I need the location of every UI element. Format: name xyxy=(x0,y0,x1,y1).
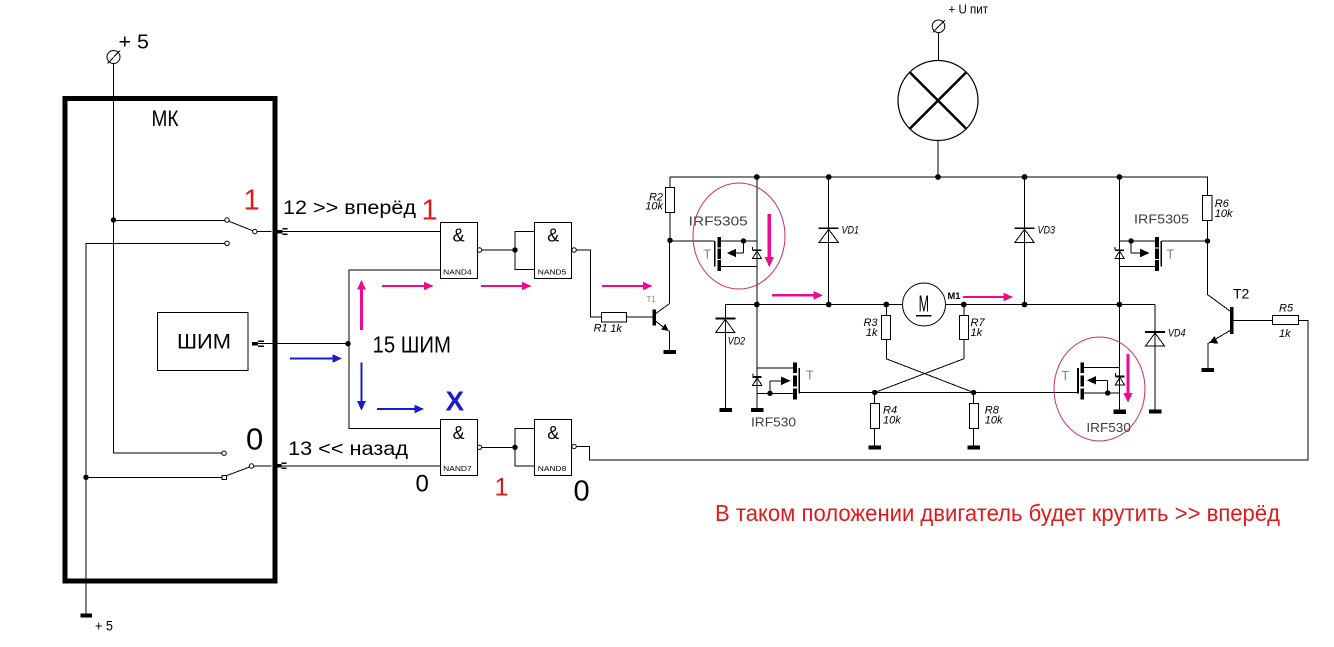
node gate left IRF5305 xyxy=(667,238,672,243)
svg-text:R5: R5 xyxy=(1279,303,1294,315)
svg-text:&: & xyxy=(453,423,465,443)
magenta arrow up from PWM node xyxy=(357,280,366,330)
svg-text:10k: 10k xyxy=(645,201,663,213)
magenta arrow right 5 at M1 xyxy=(963,293,1013,302)
wire pin12 to NAND4 input A xyxy=(282,231,440,233)
svg-text:IRF5305: IRF5305 xyxy=(1134,211,1189,226)
node rail left FET source xyxy=(754,302,760,308)
svg-text:ШИМ: ШИМ xyxy=(177,331,231,354)
body diode left IRF5305 xyxy=(752,247,761,259)
ground VD4 xyxy=(1149,410,1162,414)
resistor R6 xyxy=(1203,196,1234,221)
svg-text:13 << назад: 13 << назад xyxy=(288,438,409,460)
wire drain-source vertical right low side xyxy=(1119,305,1121,410)
node rail R3 xyxy=(883,302,889,308)
svg-text:&: & xyxy=(547,423,559,443)
wire supply to lamp xyxy=(938,33,940,61)
svg-text:NAND8: NAND8 xyxy=(538,466,567,473)
wire crossover R7 to left gate node xyxy=(875,340,964,393)
transistor T1 xyxy=(647,240,670,350)
lamp xyxy=(898,61,978,141)
svg-text:R1: R1 xyxy=(594,323,608,335)
resistor R7 xyxy=(960,305,986,340)
body diode right IRF5305 xyxy=(1115,247,1124,259)
top rail xyxy=(670,177,1208,196)
svg-text:IRF5305: IRF5305 xyxy=(689,213,748,228)
svg-text:&: & xyxy=(453,225,465,245)
pin mark at ШИМ output xyxy=(252,341,264,346)
transistor Q: IRF530 right (N-MOSFET, gate left) xyxy=(1062,362,1120,399)
resistor R4 xyxy=(871,393,902,446)
svg-text:T: T xyxy=(1062,369,1070,383)
svg-text:NAND4: NAND4 xyxy=(443,270,472,277)
node rail right FET xyxy=(1117,174,1123,180)
svg-text:0: 0 xyxy=(416,471,429,498)
wire pin13 to NAND7 input B xyxy=(281,465,440,467)
node gate right IRF5305 xyxy=(1205,238,1210,243)
node right gate xyxy=(971,390,976,395)
svg-text:T: T xyxy=(704,248,712,262)
diode VD3 xyxy=(1015,177,1056,305)
wire lamp to rail xyxy=(937,141,939,178)
transistor T2 xyxy=(1208,286,1272,368)
blue arrow right lower xyxy=(377,405,424,414)
magenta arrow right 3 xyxy=(602,282,653,291)
diode VD4 xyxy=(1145,305,1186,410)
switch 12 lower contact (open) xyxy=(225,241,229,245)
svg-text:0: 0 xyxy=(574,476,590,508)
wire lower contacts bus xyxy=(86,243,226,583)
node left gate xyxy=(872,390,877,395)
ground T1 xyxy=(664,350,677,354)
node rail right FET source xyxy=(1117,302,1123,308)
magenta arrow right 4 on rail xyxy=(772,291,823,300)
body diode left IRF530 xyxy=(753,374,762,386)
NAND4 xyxy=(441,223,482,279)
node rail/lamp xyxy=(935,174,941,180)
svg-text:IRF530: IRF530 xyxy=(751,415,796,430)
node ШИМ branch xyxy=(345,341,350,346)
+5 bar bottom-left xyxy=(81,583,114,634)
wire down to pin13 upper contact xyxy=(114,220,224,453)
node rail VD3 xyxy=(1022,174,1028,180)
resistor R3 xyxy=(863,305,890,340)
svg-text:1: 1 xyxy=(422,195,438,227)
resistor R1 xyxy=(594,313,627,336)
svg-text:10k: 10k xyxy=(985,415,1003,427)
svg-text:1k: 1k xyxy=(971,327,983,339)
MK box (microcontroller) xyxy=(65,99,275,582)
svg-text:M1: M1 xyxy=(948,291,961,301)
resistor R2 xyxy=(645,188,674,213)
transistor Q: IRF530 left (N-MOSFET, gate right) xyxy=(757,362,814,399)
wire R2 to gate node xyxy=(669,213,671,241)
wire PWM branch vertical xyxy=(349,270,440,429)
wire NAND4 out to NAND5 inputs xyxy=(482,232,535,270)
svg-text:VD4: VD4 xyxy=(1168,328,1186,340)
highlight ellipse right IRF530 xyxy=(1054,337,1145,441)
resistor R5 xyxy=(1273,303,1299,341)
wire NAND7 out to NAND8 inputs xyxy=(482,429,535,467)
wire +5 to pin12 switch node xyxy=(113,64,115,221)
wire drain-source vertical left high side xyxy=(756,177,758,305)
svg-text:X: X xyxy=(446,385,465,416)
wire node to switch13 square contact xyxy=(86,476,222,478)
svg-text:VD3: VD3 xyxy=(1038,225,1056,237)
gate line low side xyxy=(799,392,875,394)
motor rail xyxy=(725,304,1155,306)
node rail VD1 bottom xyxy=(826,302,832,308)
node rail left FET xyxy=(754,174,760,180)
svg-text:M: M xyxy=(919,291,929,317)
blue arrow right to PWM node xyxy=(290,354,342,363)
svg-text:1: 1 xyxy=(244,185,260,217)
svg-text:12 >> вперёд: 12 >> вперёд xyxy=(283,197,417,219)
transistor Q: IRF5305 left (P-MOSFET) xyxy=(704,237,757,271)
svg-text:15 ШИМ: 15 ШИМ xyxy=(373,332,452,358)
wire node to T2 collector xyxy=(1208,241,1232,313)
+U pit supply xyxy=(932,2,988,33)
svg-text:&: & xyxy=(547,225,559,245)
NAND7 xyxy=(441,420,482,476)
ground left IRF530 xyxy=(751,408,764,412)
wire drain-source vertical left low side xyxy=(756,305,758,409)
ground T2 xyxy=(1202,368,1215,372)
svg-text:0: 0 xyxy=(246,422,263,457)
svg-text:10k: 10k xyxy=(883,415,901,427)
svg-text:+ 5: + 5 xyxy=(95,618,113,634)
svg-text:T: T xyxy=(806,368,814,382)
svg-text:1k: 1k xyxy=(866,327,878,339)
wire R1 to T1 base xyxy=(627,316,653,318)
svg-text:10k: 10k xyxy=(1215,208,1233,220)
wire NAND8 out long run to R5 xyxy=(576,321,1308,461)
wire R6 to gate node right xyxy=(1207,221,1209,241)
PWM box ШИМ xyxy=(158,313,249,371)
svg-text:VD1: VD1 xyxy=(842,225,860,237)
transistor Q: IRF5305 right (P-MOSFET, mirrored) xyxy=(1119,237,1174,271)
pin 12 connector mark xyxy=(277,229,288,234)
svg-text:+ U пит: + U пит xyxy=(949,2,989,17)
svg-text:NAND5: NAND5 xyxy=(538,270,567,277)
svg-text:1k: 1k xyxy=(610,323,622,335)
svg-text:1: 1 xyxy=(495,474,509,502)
switch 12 (to +5, closed) xyxy=(114,218,272,234)
NAND8 xyxy=(535,420,577,476)
svg-text:T2: T2 xyxy=(1233,286,1250,302)
svg-text:МК: МК xyxy=(152,106,179,131)
node +5 at switch12 xyxy=(111,217,116,222)
ground R8 xyxy=(967,445,980,449)
+5 supply symbol top-left xyxy=(107,32,149,64)
magenta arrow right 2 xyxy=(481,282,532,291)
svg-text:T: T xyxy=(1167,248,1175,262)
svg-text:1k: 1k xyxy=(1279,328,1291,340)
pin 13 connector mark xyxy=(277,463,287,468)
svg-text:T1: T1 xyxy=(647,295,657,304)
switch 13 (to lower contact) xyxy=(222,451,272,480)
svg-text:В таком положении двигатель бу: В таком положении двигатель будет крутит… xyxy=(715,500,1281,526)
svg-text:NAND7: NAND7 xyxy=(443,466,472,473)
magenta arrow right 1 xyxy=(382,282,434,291)
ground right IRF530 xyxy=(1114,410,1127,414)
ground R4 xyxy=(869,445,882,449)
node rail VD3 bottom xyxy=(1022,302,1028,308)
wire drain-source vertical right high side xyxy=(1118,177,1120,305)
resistor R8 xyxy=(970,393,1004,446)
diode VD1 xyxy=(819,177,859,305)
current arrow down through IRF5305 xyxy=(765,214,774,267)
node at pin13 lower wire xyxy=(83,475,88,480)
current arrow down through right IRF530 xyxy=(1123,354,1132,403)
wire gate node to gate bar right xyxy=(1162,240,1208,242)
highlight ellipse left IRF5305 xyxy=(693,183,785,289)
wire NAND5 out to R1 xyxy=(576,250,601,317)
motor M1 xyxy=(903,283,961,326)
svg-text:+ 5: + 5 xyxy=(119,32,150,54)
NAND5 xyxy=(535,223,577,279)
body diode right IRF530 xyxy=(1115,373,1124,385)
wire crossover R3 to right gate node xyxy=(886,340,973,393)
node rail R7 xyxy=(961,302,967,308)
blue arrow down xyxy=(357,363,366,411)
ground VD2 xyxy=(719,408,732,412)
wire gate node to gate bar xyxy=(670,240,715,242)
node rail VD1 xyxy=(826,174,832,180)
svg-text:VD2: VD2 xyxy=(728,336,746,348)
diode VD2 xyxy=(715,305,745,408)
wire ШИМ to node xyxy=(258,343,349,345)
